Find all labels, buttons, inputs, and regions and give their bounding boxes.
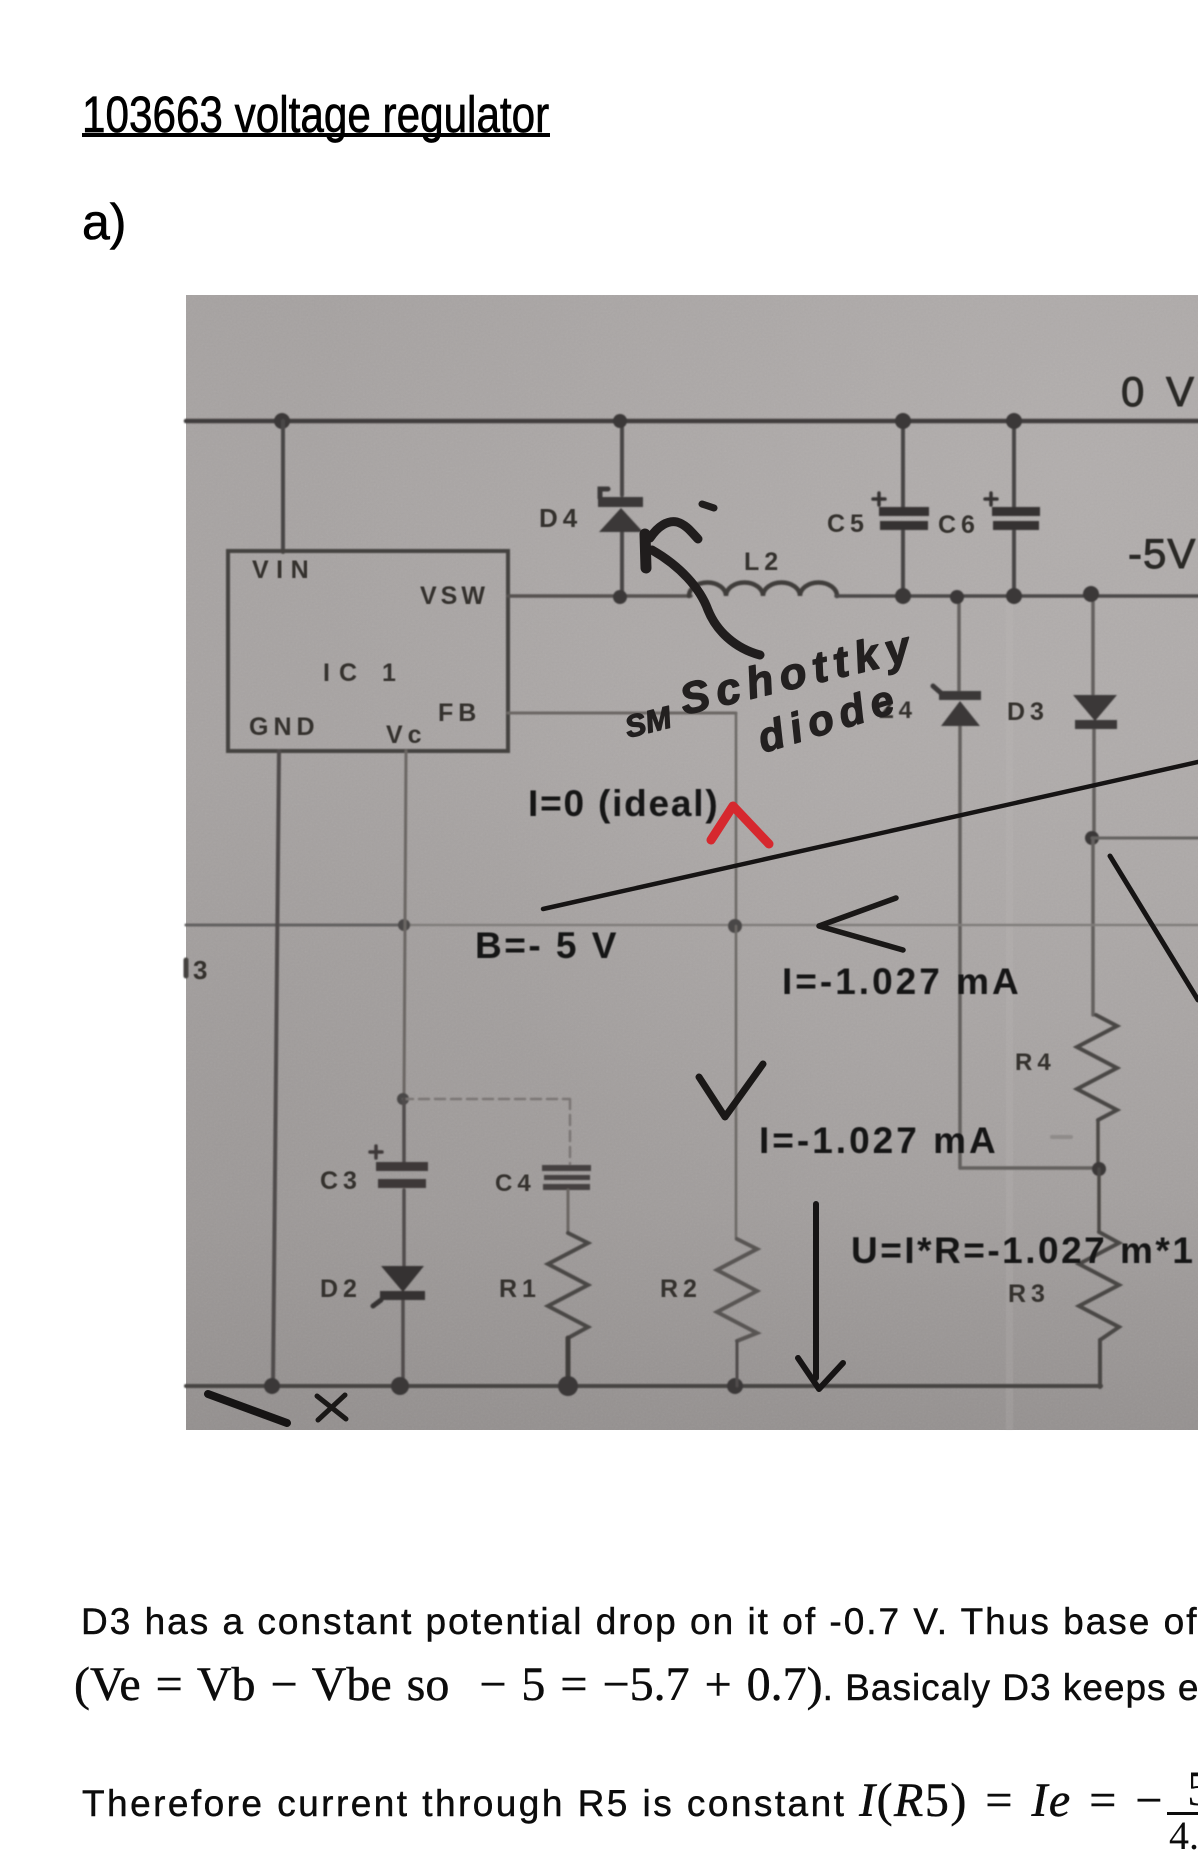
fraction [1164,1763,1198,1856]
svg-text:L2: L2 [744,548,783,576]
svg-text:0 V: 0 V [1121,368,1198,415]
svg-text:I=-1.027 mA: I=-1.027 mA [782,961,1022,1002]
zener diode Z4 [933,686,941,693]
svg-text:FB: FB [438,699,481,727]
svg-text:GND: GND [249,713,320,741]
wire 0V top rail [186,419,1198,424]
wire C3 drop [403,1099,404,1386]
wire emitter to right edge [1092,837,1198,840]
wire GND drop [273,751,279,1386]
wire R3 bottom [1098,1340,1102,1387]
node D4 bottom [613,590,627,604]
node bottom GND [264,1378,280,1394]
wire C4 to R1 [567,1190,570,1233]
body text line 2 [74,1657,1198,1714]
node D4 top [613,414,627,428]
artifact dash [1052,1135,1071,1139]
svg-text:C5: C5 [827,510,869,538]
node C6 top [1006,413,1022,429]
wire -5V rail [836,594,1198,598]
handwritten pointer line long [543,762,1198,909]
node emitter junction [1085,831,1099,845]
wire R2 drop [735,926,738,1239]
node base mid junction [728,919,742,933]
wire R4 bottom [1096,1120,1100,1169]
diode D4 vertical wire [620,421,624,597]
svg-text:I=-1.027 mA: I=-1.027 mA [759,1120,999,1161]
photo background [186,295,1198,1430]
wire mid rail right [410,924,1198,926]
handwritten checkmark [699,1064,763,1117]
node C3 branch junction [397,1093,409,1105]
node bottom R2 [727,1378,743,1394]
section label a) [82,193,126,251]
node 3 left edge tick [184,960,189,976]
svg-text:R2: R2 [660,1275,702,1303]
handwritten X mark [317,1395,346,1420]
typed annotations [475,783,1195,1271]
resistor R2 [717,1239,757,1341]
svg-text:C6: C6 [938,511,980,539]
op-amp IC1 box [228,551,508,751]
document title [82,85,549,144]
svg-text:I=0 (ideal): I=0 (ideal) [528,783,720,824]
svg-text:R3: R3 [1008,1280,1050,1308]
svg-text:VIN: VIN [252,556,316,584]
wire bottom rail [186,1384,1101,1388]
node bottom R1 [558,1376,578,1396]
handwritten left arrowhead on mid wire [819,898,903,950]
svg-text:-5V: -5V [1128,530,1196,577]
svg-text:B=- 5 V: B=- 5 V [475,925,619,966]
capacitor C3 [376,1162,428,1171]
node bottom D2 [391,1377,409,1395]
svg-text:D4: D4 [539,503,582,533]
node D3 top [1083,586,1099,602]
wire mid rail left [186,924,410,927]
paper crease [1006,600,1013,1430]
resistor R3 [1079,1232,1119,1340]
handwritten dash near D4 [702,504,714,508]
svg-text:C3: C3 [320,1167,362,1195]
body text line 1 [81,1600,1198,1644]
svg-text:D2: D2 [320,1275,362,1303]
wire D3 node down to R4 [1091,838,1095,1015]
wire R1 bottom [566,1338,571,1386]
inductor L2 [689,583,837,597]
zener Z4 branch wire [959,597,960,1168]
capacitor C5 [879,507,929,516]
svg-text:R1: R1 [499,1275,541,1303]
wire C4 branch dashed [403,1099,570,1164]
handwritten down arrow [798,1204,843,1389]
svg-text:C4: C4 [495,1170,536,1197]
wire junction to R3 [1097,1169,1101,1232]
wire VSW stub [508,594,691,598]
svg-text:Vc: Vc [386,721,427,749]
svg-text:VSW: VSW [420,582,489,610]
body text line 3 [82,1773,1164,1830]
diode D3 [1073,695,1117,721]
red arrow [711,806,769,844]
wire Z4-R4 jog [960,1166,1099,1170]
wire R2 bottom [736,1341,739,1386]
capacitor C5 wires [901,421,905,596]
handwritten pointer line right [1110,856,1198,1000]
wire FB horizontal [508,712,736,715]
diode D3 branch wire [1093,594,1094,837]
node C5 bottom [895,588,911,604]
wire FB vertical [735,713,738,925]
node Z4 top [950,590,964,604]
handwritten annotations [208,504,1198,1423]
resistor R1 [548,1233,588,1338]
printed schematic labels [193,368,1198,1308]
node Vc mid junction [398,919,410,931]
wire VIN drop [281,421,285,552]
svg-text:U=I*R=-1.027 m*1: U=I*R=-1.027 m*1 [851,1230,1195,1271]
node R4 bottom junction [1092,1162,1106,1176]
svg-text:3: 3 [193,955,212,985]
node VIN rail junction [274,413,290,429]
diode D2 [381,1266,424,1292]
diode D4 [600,489,608,498]
photo grain [186,295,1198,1430]
handwritten bottom-left stroke [208,1394,287,1423]
capacitor C6 wires [1012,421,1016,596]
capacitor C6 [992,507,1040,516]
svg-text:D3: D3 [1007,698,1049,726]
svg-text:R4: R4 [1015,1049,1056,1076]
capacitor C4 [542,1165,591,1171]
wire Vc drop [404,751,406,1099]
node C6 bottom [1006,588,1022,604]
svg-text:IC 1: IC 1 [323,659,405,687]
node C5 top [895,413,911,429]
handwritten arrow to D4 [652,550,760,655]
resistor R4 [1077,1015,1117,1120]
